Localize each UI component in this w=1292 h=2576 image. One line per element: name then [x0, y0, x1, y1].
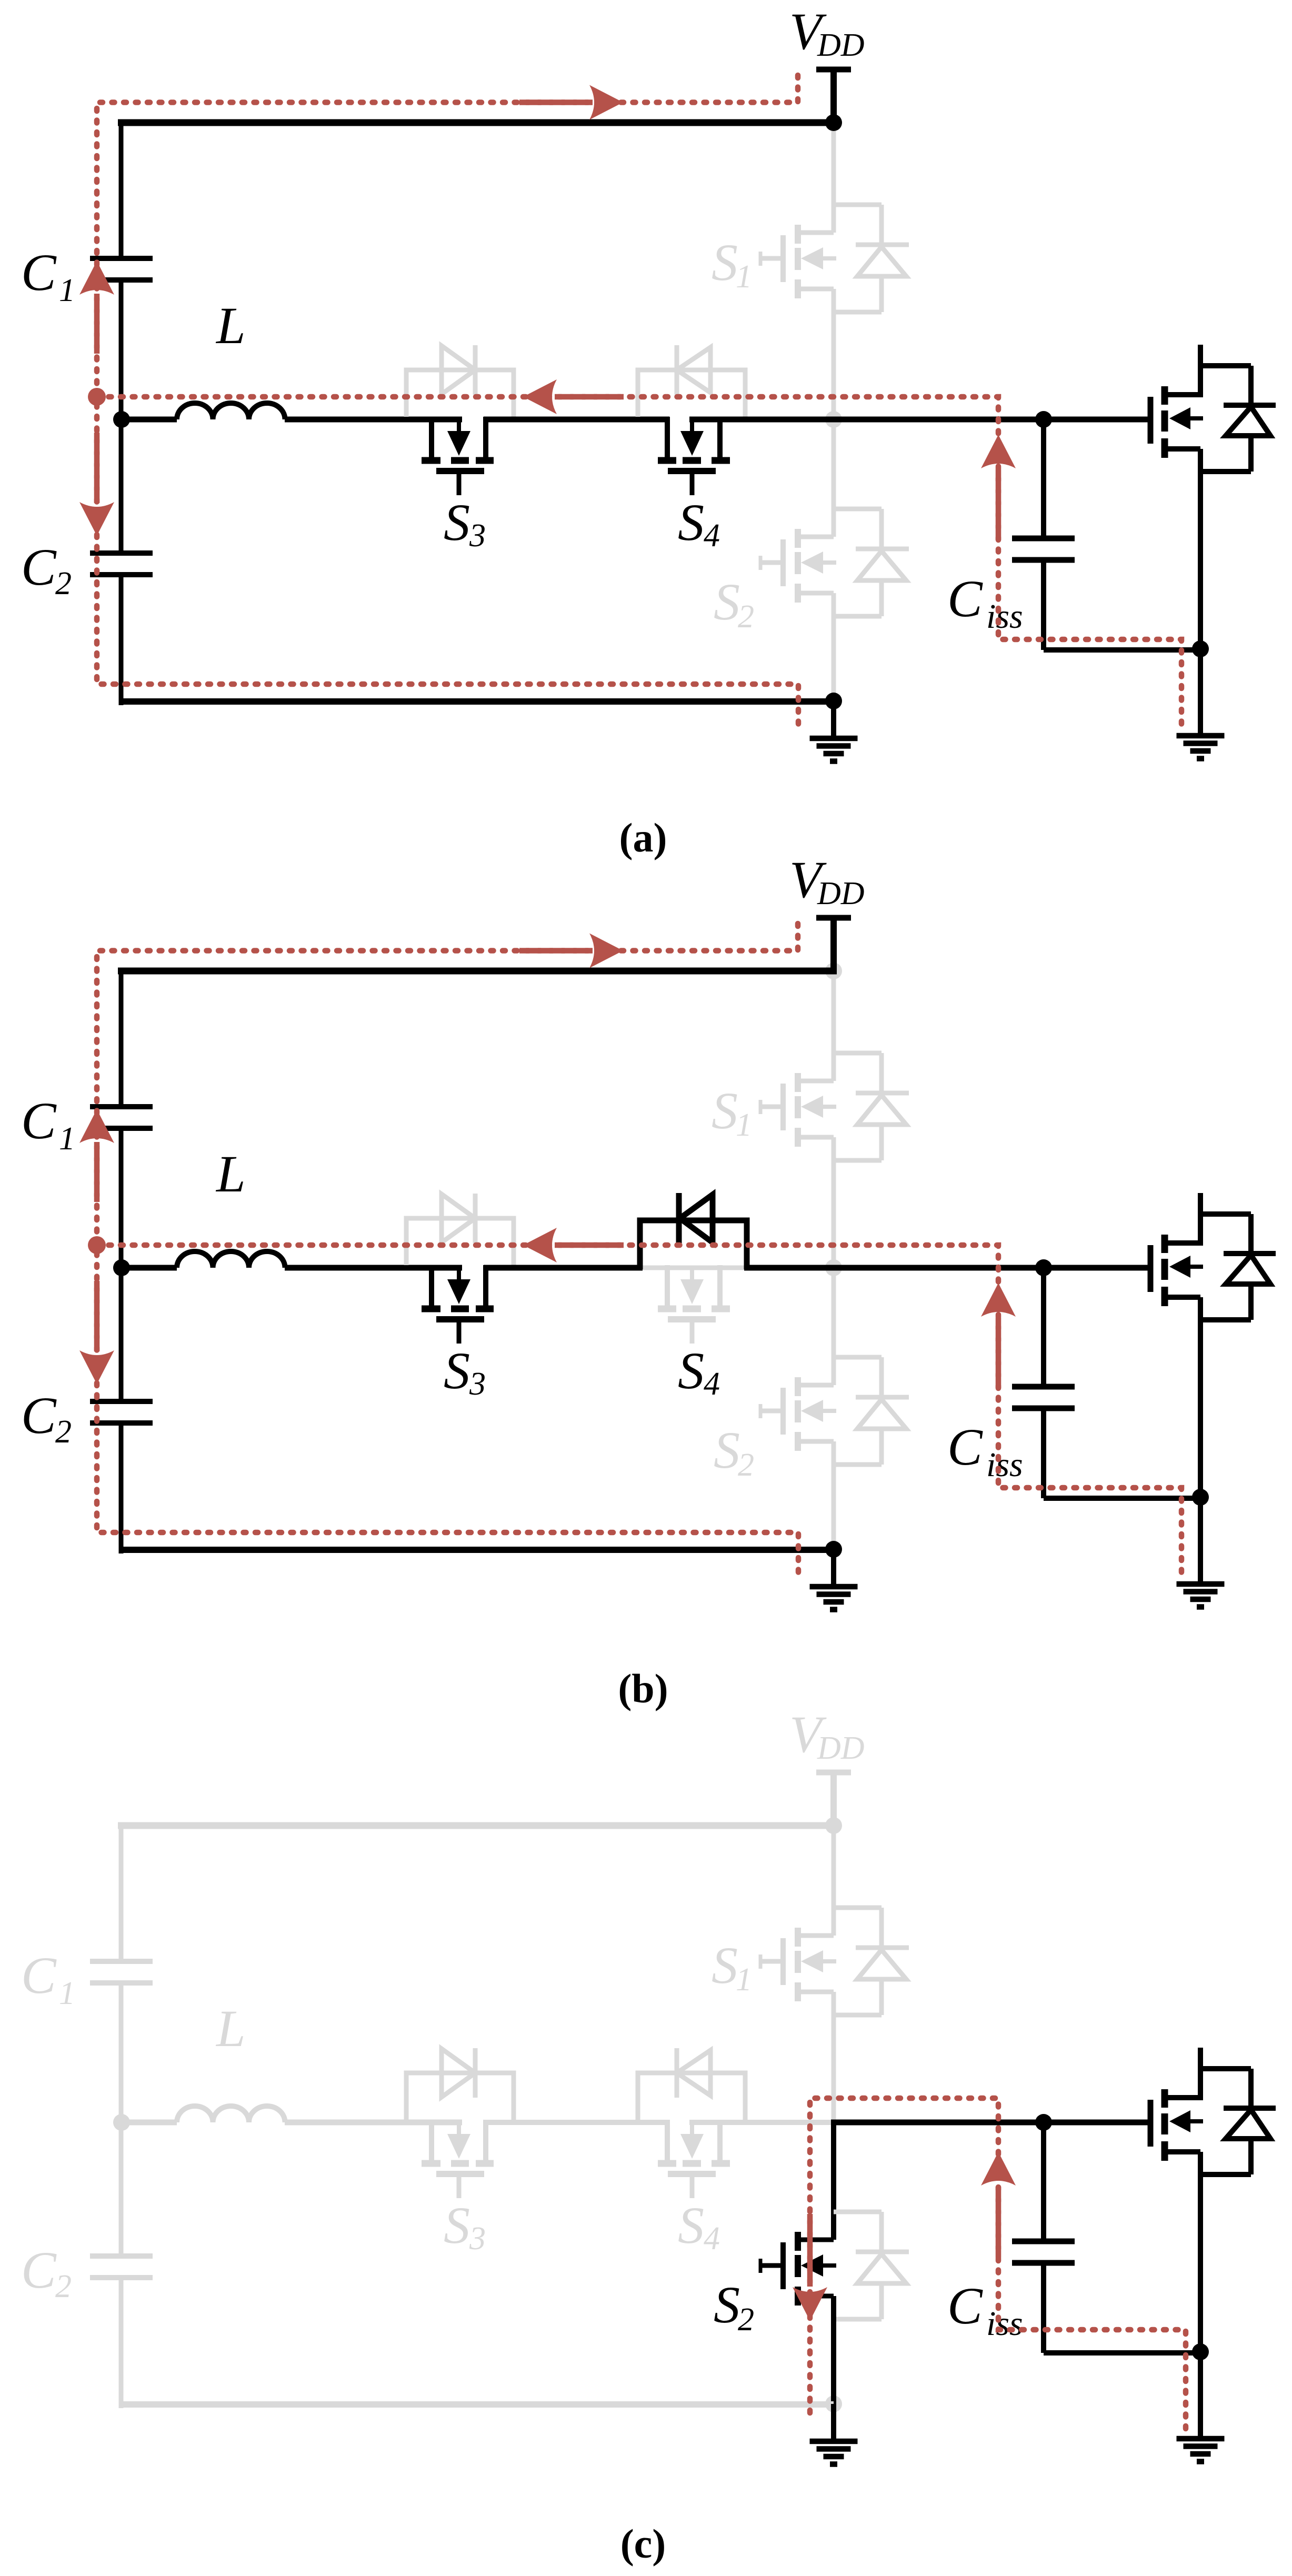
wire: top rail: [118, 119, 834, 126]
wire: S3 to D4 loop: [484, 1265, 643, 1271]
svg-text:2: 2: [738, 2302, 754, 2338]
diode D4 (antiparallel over S4): [638, 2048, 745, 2120]
svg-text:S: S: [444, 2196, 470, 2254]
ground (right): [1177, 1584, 1225, 1607]
ground (left): [810, 738, 858, 761]
red current path: gate charging branch (dashed): [97, 397, 1181, 724]
transistor S1: [760, 1928, 836, 2001]
red arrow: through C1 (up): [94, 1142, 100, 1202]
svg-text:4: 4: [704, 2221, 720, 2257]
svg-text:C: C: [21, 1946, 57, 2004]
svg-text:DD: DD: [817, 876, 865, 911]
body diode of S1: [834, 1053, 909, 1160]
body diode of S1: [834, 1908, 909, 2015]
body diode of S1: [834, 205, 909, 312]
node: VDD junction: [825, 114, 842, 131]
VDD terminal: [816, 69, 851, 126]
wire: top rail: [118, 1822, 834, 1829]
svg-text:C: C: [21, 1091, 57, 1150]
node: gray junction at bottom rail: [825, 2395, 842, 2412]
wire: C2 to bottom rail: [119, 575, 124, 705]
power MOSFET Q (driven device): [1150, 1193, 1203, 1306]
svg-text:L: L: [215, 296, 246, 355]
wire: S3 to S4: [484, 2120, 669, 2125]
wire: node to inductor: [118, 2120, 177, 2126]
inductor L: [177, 2106, 285, 2122]
svg-text:S: S: [678, 2196, 704, 2254]
body diode of Q: [1200, 2069, 1276, 2174]
svg-text:(b): (b): [618, 1666, 668, 1711]
power MOSFET Q (driven device): [1150, 345, 1203, 458]
node: gray junction at VDD: [825, 963, 842, 979]
transistor S4: [658, 417, 730, 495]
node A (C1/C2/L junction): [113, 2114, 130, 2131]
wire: S4 to gate node: [689, 417, 1150, 423]
wire: gate line down to S2 drain: [832, 417, 836, 537]
capacitor Ciss: [1012, 419, 1200, 650]
svg-text:iss: iss: [986, 1446, 1023, 1484]
svg-text:S: S: [444, 493, 470, 552]
wire: S3 to S4: [484, 417, 669, 423]
wire: C1 to node: [119, 1983, 124, 2125]
wire: inductor to S3: [285, 1265, 462, 1271]
wire: left rail upper: [119, 971, 124, 1107]
body diode of S2: [834, 1357, 909, 1465]
body diode of S2: [834, 509, 909, 616]
power MOSFET Q (driven device): [1150, 2048, 1203, 2161]
svg-text:S: S: [712, 1936, 738, 1994]
body diode of Q: [1200, 1214, 1276, 1320]
wire: gate line down to S2 drain: [831, 2120, 836, 2240]
node A (C1/C2/L junction): [113, 1259, 130, 1276]
red current path: VDD loop (dashed): [97, 75, 798, 726]
red arrow: top rail current: [519, 948, 593, 954]
svg-text:C: C: [21, 2241, 57, 2299]
svg-text:1: 1: [59, 273, 75, 308]
node: gray junction on gate line (S1/S2 leg): [825, 1259, 842, 1276]
svg-text:C: C: [947, 2277, 983, 2335]
wire: drain-source right leg / to ground: [1198, 2152, 1203, 2439]
svg-text:2: 2: [55, 566, 72, 602]
ground (left): [810, 2441, 858, 2464]
capacitor C1: [90, 258, 153, 280]
svg-text:C: C: [21, 538, 57, 596]
red arrow: into gate node via Ciss (up): [996, 469, 1001, 540]
transistor S2: [760, 529, 836, 603]
wire: left rail upper: [119, 1826, 124, 1961]
transistor S1: [760, 225, 836, 298]
body diode of Q: [1200, 366, 1276, 472]
svg-text:2: 2: [738, 1447, 754, 1483]
svg-text:2: 2: [55, 2269, 72, 2304]
svg-text:4: 4: [704, 518, 720, 554]
svg-text:C: C: [947, 569, 983, 628]
transistor S4: [658, 2120, 730, 2198]
svg-text:1: 1: [736, 1962, 752, 1998]
wire: inductor to S3: [285, 2120, 462, 2126]
transistor S3: [422, 2120, 494, 2198]
wire: S1 source to gate line: [832, 1992, 836, 2125]
wire: top rail: [118, 968, 837, 975]
diode D3 (antiparallel over S3): [406, 2048, 514, 2120]
svg-text:L: L: [215, 1999, 246, 2058]
wire: S2 source to ground rail: [832, 593, 836, 705]
svg-text:S: S: [712, 233, 738, 292]
svg-text:1: 1: [736, 1107, 752, 1143]
node: red junction dot: [88, 388, 106, 406]
wire: S4 to S2 corner (gray part): [689, 2120, 836, 2125]
wire: left rail upper: [119, 123, 124, 258]
diode D3 (antiparallel over S3): [406, 1194, 514, 1265]
capacitor Ciss: [1012, 1268, 1200, 1498]
body diode of S2: [834, 2212, 909, 2319]
inductor L: [177, 403, 285, 419]
wire: ground stub (left): [831, 2404, 836, 2441]
wire: bottom rail: [121, 698, 834, 705]
VDD terminal: [816, 1772, 851, 1829]
wire: S1 drain leg: [832, 1826, 836, 1936]
wire: gray segment under D4: [641, 1266, 746, 1270]
wire: bottom rail: [121, 1547, 834, 1553]
svg-text:C: C: [21, 243, 57, 302]
wire: node to inductor: [118, 1265, 177, 1271]
red current path: VDD loop (dashed): [97, 924, 798, 1574]
red arrow: into gate node via Ciss (up): [996, 1318, 1001, 1388]
capacitor C1: [90, 1107, 153, 1128]
svg-text:3: 3: [469, 2221, 486, 2257]
svg-text:S: S: [714, 573, 740, 631]
svg-text:S: S: [678, 493, 704, 552]
diode D3 (antiparallel over S3): [406, 345, 514, 417]
inductor L: [177, 1251, 285, 1268]
node: source/Ciss junction: [1192, 1489, 1209, 1506]
wire: bottom rail: [121, 2401, 834, 2408]
node: bottom rail / ground junction: [825, 693, 842, 709]
capacitor C2: [90, 553, 153, 575]
wire: ground stub (left): [831, 701, 836, 738]
svg-text:S: S: [714, 1421, 740, 1479]
svg-text:2: 2: [55, 1414, 72, 1450]
capacitor Ciss: [1012, 2122, 1200, 2353]
node: VDD junction: [825, 1817, 842, 1834]
svg-text:iss: iss: [986, 597, 1023, 636]
node: gate node: [1035, 2114, 1052, 2131]
capacitor C1: [90, 1961, 153, 1983]
svg-text:1: 1: [59, 1121, 75, 1157]
node: bottom rail / ground junction: [825, 1541, 842, 1558]
transistor S1: [760, 1073, 836, 1147]
wire: gate line down to S2 drain: [832, 1266, 836, 1385]
svg-text:(a): (a): [619, 815, 667, 860]
ground (right): [1177, 2439, 1225, 2462]
diode D4 (conducting, black): [640, 1193, 747, 1269]
diode D4 (antiparallel over S4): [638, 345, 745, 417]
node: source/Ciss junction: [1192, 2343, 1209, 2360]
svg-text:C: C: [947, 1418, 983, 1476]
node: gray junction on gate line (S1/S2 leg): [825, 411, 842, 428]
transistor S3: [422, 1265, 494, 1344]
svg-text:DD: DD: [817, 1730, 865, 1766]
wire: C1 to node: [119, 280, 124, 422]
capacitor C2: [90, 1401, 153, 1423]
svg-text:3: 3: [469, 518, 486, 554]
node A (C1/C2/L junction): [113, 411, 130, 428]
wire: node to inductor: [118, 417, 177, 423]
wire: drain-source right leg / to ground: [1198, 449, 1203, 736]
VDD terminal: [816, 918, 851, 974]
wire: inductor to S3: [285, 417, 462, 423]
svg-text:L: L: [215, 1145, 246, 1203]
ground (left): [810, 1587, 858, 1610]
red current path: S2 discharge loop (dashed): [810, 2098, 1186, 2437]
wire: node to C2: [119, 417, 124, 553]
transistor S2: [760, 1377, 836, 1451]
wire: S2 source to ground rail: [832, 1441, 836, 1553]
transistor S2: [760, 2232, 836, 2306]
wire: C1 to node: [119, 1128, 124, 1270]
red arrow: top rail current: [519, 99, 593, 105]
svg-text:S: S: [444, 1341, 470, 1400]
red current path: gate charging branch (dashed): [97, 1245, 1181, 1572]
red arrow: gate line current (leftward): [555, 1242, 624, 1248]
transistor S4: [658, 1265, 730, 1344]
wire: C2 to bottom rail: [119, 2278, 124, 2408]
red arrow: up out of Ciss: [996, 2187, 1001, 2258]
transistor S3: [422, 417, 494, 495]
wire: D4 loop to gate node: [744, 1265, 1150, 1271]
svg-text:S: S: [714, 2276, 740, 2334]
svg-text:S: S: [678, 1341, 704, 1400]
svg-text:S: S: [712, 1081, 738, 1140]
wire: S1 drain leg: [832, 971, 836, 1081]
svg-text:1: 1: [736, 259, 752, 295]
ground (right): [1177, 736, 1225, 759]
node: gate node: [1035, 411, 1052, 428]
red arrow: down through S2: [807, 2214, 813, 2287]
svg-text:2: 2: [738, 599, 754, 635]
wire: node to C2: [119, 2120, 124, 2256]
wire: S2 source to ground rail: [831, 2296, 836, 2408]
node: source/Ciss junction: [1192, 640, 1209, 657]
svg-text:C: C: [21, 1386, 57, 1445]
svg-text:iss: iss: [986, 2304, 1023, 2343]
red arrow: toward C2 (down): [94, 1281, 100, 1351]
svg-text:DD: DD: [817, 27, 865, 63]
capacitor C2: [90, 2256, 153, 2278]
wire: drain-source right leg / to ground: [1198, 1297, 1203, 1584]
wire: S1 source to gate line: [832, 289, 836, 422]
wire: S2 corner to gate (black in c): [831, 2120, 1150, 2126]
red arrow: toward C2 (down): [94, 433, 100, 503]
node: red junction dot: [88, 1236, 106, 1254]
wire: node to C2: [119, 1266, 124, 1401]
node: gate node: [1035, 1259, 1052, 1276]
svg-text:3: 3: [469, 1366, 486, 1402]
svg-text:(c): (c): [620, 2521, 666, 2567]
red arrow: gate line current (leftward): [555, 394, 624, 400]
wire: C2 to bottom rail: [119, 1423, 124, 1553]
wire: S1 source to gate line: [832, 1137, 836, 1270]
svg-text:1: 1: [59, 1976, 75, 2011]
wire: S1 drain leg: [832, 123, 836, 233]
red arrow: through C1 (up): [94, 294, 100, 354]
svg-text:4: 4: [704, 1366, 720, 1402]
wire: ground stub (left): [831, 1549, 836, 1587]
